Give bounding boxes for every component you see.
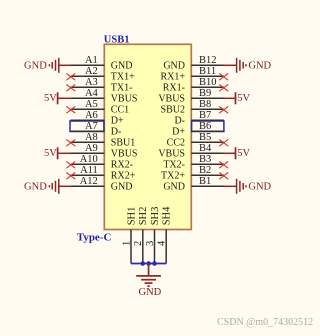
svg-text:GND: GND bbox=[111, 182, 133, 193]
selection box around pin B6 bbox=[192, 121, 224, 132]
svg-text:VBUS: VBUS bbox=[111, 94, 138, 105]
svg-text:VBUS: VBUS bbox=[111, 149, 138, 160]
svg-text:B8: B8 bbox=[199, 99, 211, 110]
pin A9 (VBUS) bbox=[70, 143, 137, 160]
svg-text:VBUS: VBUS bbox=[158, 94, 185, 105]
no-ERC marker at pin B5 bbox=[219, 139, 228, 146]
no-ERC marker at pin B2 bbox=[219, 172, 228, 179]
pin A5 (CC1) bbox=[70, 99, 129, 116]
no-ERC marker at pin A3 bbox=[66, 84, 75, 91]
svg-text:TX2-: TX2- bbox=[163, 160, 185, 171]
svg-text:A11: A11 bbox=[80, 165, 98, 176]
pin A1 (GND) bbox=[70, 55, 132, 72]
svg-text:D-: D- bbox=[174, 116, 185, 127]
pin B10 (RX1-) bbox=[163, 77, 224, 94]
svg-text:GND: GND bbox=[248, 182, 271, 193]
no-ERC marker at pin B10 bbox=[219, 84, 228, 91]
svg-text:SH3: SH3 bbox=[150, 207, 161, 226]
pin B2 (TX2+) bbox=[161, 165, 224, 182]
pin B5 (CC2) bbox=[167, 132, 224, 149]
svg-text:RX2-: RX2- bbox=[111, 160, 133, 171]
svg-text:5V: 5V bbox=[237, 148, 250, 159]
pin B3 (TX2-) bbox=[163, 154, 224, 171]
no-ERC marker at pin A5 bbox=[66, 106, 75, 113]
svg-text:A9: A9 bbox=[85, 143, 98, 154]
power port GND at shield bbox=[136, 264, 161, 298]
svg-text:CC2: CC2 bbox=[167, 138, 185, 149]
svg-text:RX2+: RX2+ bbox=[111, 171, 136, 182]
pin 1 (SH1) bbox=[121, 207, 137, 264]
svg-text:B11: B11 bbox=[199, 66, 216, 77]
pin B12 (GND) bbox=[163, 55, 224, 72]
svg-text:B10: B10 bbox=[199, 77, 217, 88]
power port GND at pin B1 bbox=[223, 179, 272, 194]
pin A3 (TX1-) bbox=[70, 77, 132, 94]
power port 5V at pin B4 bbox=[223, 147, 251, 159]
no-ERC marker at pin A11 bbox=[66, 172, 75, 179]
pin B4 (VBUS) bbox=[158, 143, 224, 160]
svg-text:B6: B6 bbox=[199, 121, 211, 132]
svg-text:A3: A3 bbox=[85, 77, 98, 88]
svg-text:GND: GND bbox=[139, 287, 162, 298]
junction at GND stub bbox=[146, 261, 151, 266]
power port 5V at pin A9 bbox=[44, 147, 71, 159]
svg-text:GND: GND bbox=[248, 61, 271, 72]
no-ERC marker at pin A8 bbox=[66, 139, 75, 146]
pin A2 (TX1+) bbox=[70, 66, 135, 83]
svg-text:D+: D+ bbox=[172, 127, 185, 138]
svg-text:A7: A7 bbox=[85, 121, 98, 132]
svg-text:SBU1: SBU1 bbox=[111, 138, 135, 149]
svg-text:GND: GND bbox=[24, 182, 47, 193]
svg-text:GND: GND bbox=[111, 61, 133, 72]
svg-text:VBUS: VBUS bbox=[158, 149, 185, 160]
power port 5V at pin B9 bbox=[223, 92, 251, 104]
pin A4 (VBUS) bbox=[70, 88, 137, 105]
power port 5V at pin A4 bbox=[44, 92, 71, 104]
connector USB1 body bbox=[104, 44, 191, 229]
svg-text:RX1-: RX1- bbox=[163, 83, 185, 94]
svg-text:B12: B12 bbox=[199, 55, 217, 66]
svg-text:USB1: USB1 bbox=[104, 35, 130, 46]
svg-text:A1: A1 bbox=[85, 55, 98, 66]
pin 3 (SH3) bbox=[145, 207, 161, 264]
power port GND at pin B12 bbox=[223, 58, 272, 73]
svg-text:GND: GND bbox=[24, 61, 47, 72]
svg-text:GND: GND bbox=[163, 61, 185, 72]
pin A8 (SBU1) bbox=[70, 132, 135, 149]
svg-text:5V: 5V bbox=[44, 148, 57, 159]
junction at SH3 bbox=[152, 261, 157, 266]
svg-text:A6: A6 bbox=[85, 110, 98, 121]
pin B11 (RX1+) bbox=[160, 66, 223, 83]
svg-text:3: 3 bbox=[145, 241, 156, 246]
pin B8 (SBU2) bbox=[161, 99, 224, 116]
pin A10 (RX2-) bbox=[70, 154, 133, 171]
svg-text:4: 4 bbox=[157, 240, 168, 246]
svg-text:5V: 5V bbox=[44, 93, 57, 104]
power port GND at pin A1 bbox=[24, 58, 71, 73]
svg-text:Type-C: Type-C bbox=[77, 231, 112, 243]
svg-text:B3: B3 bbox=[199, 154, 211, 165]
svg-text:B1: B1 bbox=[199, 176, 211, 187]
svg-text:RX1+: RX1+ bbox=[160, 72, 185, 83]
svg-text:1: 1 bbox=[121, 241, 132, 246]
svg-text:B5: B5 bbox=[199, 132, 211, 143]
svg-text:2: 2 bbox=[133, 241, 144, 246]
svg-text:SBU2: SBU2 bbox=[161, 105, 185, 116]
pin B6 (D+) bbox=[172, 121, 224, 138]
svg-text:TX1+: TX1+ bbox=[111, 72, 135, 83]
svg-text:D-: D- bbox=[111, 127, 122, 138]
svg-text:SH4: SH4 bbox=[162, 206, 173, 225]
no-ERC marker at pin A2 bbox=[66, 73, 75, 80]
svg-text:B2: B2 bbox=[199, 165, 211, 176]
pin B9 (VBUS) bbox=[158, 88, 224, 105]
pin 2 (SH2) bbox=[133, 207, 149, 264]
pin A7 (D-) bbox=[70, 121, 121, 138]
pin B7 (D-) bbox=[174, 110, 223, 127]
no-ERC marker at pin B8 bbox=[219, 106, 228, 113]
pin A12 (GND) bbox=[70, 176, 132, 193]
selection box around pin A7 bbox=[70, 121, 104, 132]
svg-text:5V: 5V bbox=[237, 93, 250, 104]
svg-text:A5: A5 bbox=[85, 99, 98, 110]
svg-text:SH1: SH1 bbox=[126, 207, 137, 226]
svg-text:A10: A10 bbox=[80, 154, 98, 165]
svg-text:B9: B9 bbox=[199, 88, 211, 99]
svg-text:D+: D+ bbox=[111, 116, 124, 127]
svg-text:A8: A8 bbox=[85, 132, 98, 143]
svg-text:SH2: SH2 bbox=[138, 207, 149, 226]
no-ERC marker at pin A10 bbox=[66, 161, 75, 168]
pin A11 (RX2+) bbox=[70, 165, 135, 182]
svg-text:A12: A12 bbox=[80, 176, 98, 187]
svg-text:B7: B7 bbox=[199, 110, 211, 121]
svg-text:CSDN @m0_74302512: CSDN @m0_74302512 bbox=[217, 317, 313, 328]
svg-text:CC1: CC1 bbox=[111, 105, 129, 116]
svg-text:TX2+: TX2+ bbox=[161, 171, 185, 182]
svg-text:B4: B4 bbox=[199, 143, 212, 154]
no-ERC marker at pin B11 bbox=[219, 73, 228, 80]
pin A6 (D+) bbox=[70, 110, 124, 127]
svg-text:A2: A2 bbox=[85, 66, 98, 77]
svg-text:TX1-: TX1- bbox=[111, 83, 133, 94]
svg-text:GND: GND bbox=[163, 182, 185, 193]
pin 4 (SH4) bbox=[157, 206, 173, 264]
wire GND net joining SH pins bbox=[131, 263, 166, 265]
power port GND at pin A12 bbox=[24, 179, 71, 194]
pin B1 (GND) bbox=[163, 176, 224, 193]
junction at SH2 bbox=[141, 261, 146, 266]
svg-text:A4: A4 bbox=[85, 88, 99, 99]
no-ERC marker at pin B3 bbox=[219, 161, 228, 168]
